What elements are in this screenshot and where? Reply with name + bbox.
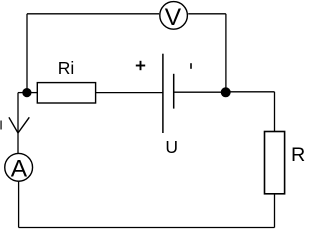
svg-text:U: U: [165, 137, 178, 157]
wire left vertical (top corner down to junction): [26, 14, 28, 93]
wire lower-left vertical (junction to ammeter): [17, 93, 19, 153]
svg-text:I: I: [0, 117, 3, 132]
wire voltmeter to top-right corner: [188, 13, 226, 15]
wire right vertical down to resistor R: [274, 92, 276, 132]
wire left junction to resistor Ri: [27, 92, 37, 94]
label ' (negative terminal tick): [190, 63, 192, 69]
battery U long plate (positive): [162, 54, 164, 133]
battery U short plate (negative): [173, 74, 175, 109]
svg-text:Ri: Ri: [58, 58, 75, 78]
svg-text:V: V: [165, 4, 182, 31]
wire stub from left junction to lower branch: [18, 92, 27, 94]
resistor R: [265, 132, 285, 194]
wire top-left horizontal (corner to voltmeter): [27, 13, 159, 15]
current arrow I (arrowhead): [9, 117, 29, 133]
svg-text:R: R: [291, 144, 305, 166]
wire battery to right junction: [174, 91, 226, 93]
label + (positive terminal): [136, 61, 145, 70]
resistor Ri: [37, 83, 95, 103]
voltmeter V: [160, 2, 188, 31]
node junction dot left: [22, 88, 31, 97]
wire resistor Ri to battery: [96, 92, 163, 94]
wire top-right vertical (corner down to junction): [225, 14, 227, 93]
wire right junction to right corner: [226, 91, 275, 93]
wire resistor R to bottom-right corner: [274, 194, 276, 228]
wire ammeter to bottom-left corner: [18, 182, 20, 228]
wire bottom horizontal: [19, 227, 275, 229]
svg-text:A: A: [11, 155, 28, 182]
node junction dot right: [221, 87, 231, 97]
ammeter A: [5, 153, 33, 182]
